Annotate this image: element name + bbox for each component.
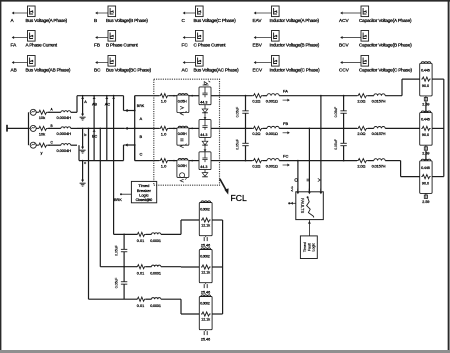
AC source EC <box>30 142 36 148</box>
load resistor B (2.0ohm) <box>357 126 368 130</box>
wire C FCL to line resistor <box>220 160 252 162</box>
voltmeter AB <box>93 95 95 97</box>
resistor source C (10k) <box>38 143 48 147</box>
line inductor C (0.001ohm) <box>267 159 279 161</box>
svg-text:ACV: ACV <box>339 18 350 23</box>
load branch 2 resistor <box>421 126 430 130</box>
svg-text:44.3: 44.3 <box>200 165 207 169</box>
bottom load 1 exit wire <box>212 219 223 221</box>
wire port to sources <box>7 127 30 129</box>
FCL diode below C <box>204 169 206 172</box>
svg-text:FA: FA <box>283 89 288 94</box>
bottom row 1 inductor (0.0001) <box>152 233 161 235</box>
voltmeter c to ground <box>82 160 84 162</box>
wire C after inductor <box>71 144 77 146</box>
svg-text:A Phase Current: A Phase Current <box>26 43 58 48</box>
svg-text:90.0: 90.0 <box>422 84 429 88</box>
bottom row 1 resistor (0.01) <box>136 232 145 236</box>
line resistor A (0.2ohm) <box>252 94 262 98</box>
FCL capacitor box B (44.3) <box>199 120 211 138</box>
voltmeter AC <box>106 95 108 97</box>
drop wire to bottom row1 <box>113 95 115 97</box>
svg-text:25.46: 25.46 <box>201 290 210 294</box>
timed fault logic box <box>300 236 317 259</box>
svg-text:CCV: CCV <box>339 68 350 73</box>
bottom load 2 box <box>199 250 212 283</box>
svg-text:0.2Ω: 0.2Ω <box>252 163 260 168</box>
FCL capacitor box A (44.3) <box>199 87 211 105</box>
FCL thyristor glyph top <box>203 82 209 85</box>
meter ECV: arrow wire <box>256 62 272 64</box>
bottom row 2 wire left <box>100 266 137 268</box>
meter BC: icon box <box>108 56 116 67</box>
svg-text:0.0004H: 0.0004H <box>57 148 72 153</box>
svg-text:0.446: 0.446 <box>421 118 430 122</box>
wire C to inductor <box>48 144 61 146</box>
load branch 3 bottom element <box>425 193 427 195</box>
wire B after breaker <box>135 127 154 129</box>
wire phase A riser <box>76 96 78 113</box>
fault box top stub B <box>308 189 310 192</box>
bottom load 2 capacitor <box>205 283 207 284</box>
wire source B <box>36 127 38 129</box>
svg-text:b: b <box>84 133 86 137</box>
load branch 1 resistor <box>421 77 430 81</box>
svg-text:1.0: 1.0 <box>161 164 167 169</box>
svg-text:C Phase Current: C Phase Current <box>194 43 227 48</box>
BRK signal stub <box>120 193 122 195</box>
meter CCV: arrow wire <box>343 62 362 64</box>
FCL wire B entry <box>154 127 160 129</box>
svg-text:FB: FB <box>94 43 100 48</box>
FCL inductor box B (0.05H) <box>177 128 189 145</box>
wire A to load section <box>279 95 357 97</box>
svg-text:AB: AB <box>11 68 17 73</box>
svg-text:0.01: 0.01 <box>137 271 144 275</box>
FCL wire B exit <box>211 127 220 129</box>
meter B: arrow wire <box>98 12 109 14</box>
svg-text:C: C <box>140 152 143 157</box>
svg-text:0.05uF: 0.05uF <box>114 245 118 256</box>
svg-text:0.0004H: 0.0004H <box>57 131 72 136</box>
fault tap wire phase B <box>309 127 311 129</box>
svg-text:2.0Ω: 2.0Ω <box>357 131 365 136</box>
FCL resistor B (1.0) <box>159 126 168 130</box>
svg-text:25.46: 25.46 <box>201 337 210 341</box>
timed breaker logic box <box>131 181 156 202</box>
svg-text:0.01: 0.01 <box>137 304 144 308</box>
svg-text:12.1k: 12.1k <box>201 224 210 228</box>
meter CCV: icon box <box>361 56 369 67</box>
wire B to load section <box>279 127 357 129</box>
wire A to load inductor <box>368 95 374 97</box>
bottom row 3 wire to box <box>161 298 181 300</box>
svg-text:Inductor Voltage(B Phase): Inductor Voltage(B Phase) <box>270 43 320 48</box>
svg-text:12.1k: 12.1k <box>201 271 210 275</box>
svg-text:BC: BC <box>92 135 98 139</box>
svg-text:0.05uF: 0.05uF <box>236 107 240 118</box>
FCL wire A to inductor box <box>169 95 177 97</box>
FCL diode link A-B <box>204 105 206 109</box>
svg-text:BCV: BCV <box>339 43 350 48</box>
svg-text:0.05uF: 0.05uF <box>114 278 118 289</box>
svg-text:Closed@t0: Closed@t0 <box>136 198 153 202</box>
capacitor C1a (A-B) <box>245 96 247 111</box>
border frame left <box>0 0 2 351</box>
svg-text:y: y <box>41 150 43 155</box>
bottom row 1 wire to box <box>161 233 181 235</box>
wire C step down after breaker <box>134 145 136 161</box>
FCL capacitor box C (44.3) <box>199 152 211 170</box>
svg-text:Capacitor Voltage(B Phase): Capacitor Voltage(B Phase) <box>359 43 412 48</box>
svg-text:Bus Voltage(A Phase): Bus Voltage(A Phase) <box>26 18 68 23</box>
svg-text:BC: BC <box>94 68 101 73</box>
wire B to inductor <box>48 127 61 129</box>
breaker C arrow <box>127 144 135 146</box>
meter FA: arrow wire <box>14 37 28 39</box>
svg-text:Inductor Voltage(A Phase): Inductor Voltage(A Phase) <box>270 18 320 23</box>
bottom load 3 box <box>199 297 212 330</box>
line inductor B (0.001ohm) <box>267 126 279 128</box>
meter B: icon box <box>108 6 116 17</box>
svg-text:Inductor Voltage(C Phase): Inductor Voltage(C Phase) <box>270 68 321 73</box>
svg-text:A: A <box>84 100 87 104</box>
FCL wire B to inductor box <box>169 127 177 129</box>
capacitor chain 2 vertical <box>343 95 345 97</box>
bottom load 3 capacitor <box>205 330 207 331</box>
svg-text:1.0: 1.0 <box>161 99 167 104</box>
bottom load return bus <box>222 220 224 314</box>
svg-text:BRK: BRK <box>114 198 122 202</box>
load inductor A (0.0157H) <box>374 94 385 96</box>
svg-text:0.0004H: 0.0004H <box>57 115 72 120</box>
fault box top stub A <box>320 189 322 192</box>
svg-text:Bus Voltage(BC Phase): Bus Voltage(BC Phase) <box>106 68 152 73</box>
bottom row 1 wire left <box>114 233 137 235</box>
svg-text:FCL: FCL <box>231 193 247 203</box>
bottom capacitor (row1-row2) <box>123 234 125 249</box>
meter EAV: arrow wire <box>256 12 272 14</box>
svg-text:0.05uF: 0.05uF <box>236 139 240 150</box>
svg-text:FAULTS: FAULTS <box>300 198 305 213</box>
three phase fault box FAULTS <box>296 192 324 220</box>
svg-text:0.05uF: 0.05uF <box>334 139 338 150</box>
load branch 3 resistor <box>421 175 430 179</box>
node A voltmeter tap <box>82 95 84 97</box>
FCL inductor box A (0.05H) <box>177 95 189 112</box>
meter A: icon box <box>28 6 36 17</box>
svg-text:BRK: BRK <box>137 104 145 108</box>
svg-text:c: c <box>84 161 86 165</box>
svg-text:FB: FB <box>283 121 288 126</box>
load inductor C (0.0157H) <box>374 159 385 161</box>
meter FC: icon box <box>196 31 204 42</box>
bottom load 1 box <box>199 203 212 236</box>
bottom load 1 resistor <box>201 218 211 222</box>
meter C: arrow wire <box>185 12 196 14</box>
drop wire to bottom row3 <box>88 127 90 129</box>
svg-text:12.1k: 12.1k <box>201 318 210 322</box>
svg-text:0.446: 0.446 <box>421 68 430 72</box>
svg-text:90.0: 90.0 <box>422 181 429 185</box>
FCL diode link B-C <box>204 137 206 141</box>
inductor source A (0.0004H) <box>61 111 71 113</box>
svg-text:EAV: EAV <box>253 18 263 23</box>
bottom row 3 resistor (0.01) <box>136 297 145 301</box>
svg-text:0.0001: 0.0001 <box>150 304 161 308</box>
resistor source A (10k) <box>38 110 48 114</box>
svg-text:0.2Ω: 0.2Ω <box>252 99 260 104</box>
meter AC: arrow wire <box>185 62 196 64</box>
FCL resistor C (1.0) <box>159 159 168 163</box>
meter BC: arrow wire <box>98 62 109 64</box>
inductor source B (0.0004H) <box>61 127 71 129</box>
meter FB: icon box <box>108 31 116 42</box>
wire C resistor to inductor <box>263 160 267 162</box>
wire A resistor to inductor <box>263 95 267 97</box>
meter ACV: icon box <box>361 6 369 17</box>
wire A after inductor <box>71 111 77 113</box>
bottom load 1 capacitor <box>205 236 207 237</box>
svg-text:Logic: Logic <box>139 192 149 197</box>
line inductor A (0.001ohm) <box>267 94 279 96</box>
meter ACV: arrow wire <box>343 12 362 14</box>
capacitor C2a (A-B) <box>343 96 345 111</box>
wire A FCL to line resistor <box>220 95 252 97</box>
svg-text:A-G: A-G <box>290 186 294 192</box>
load branch 2 bottom element <box>425 145 427 147</box>
load inductor B (0.0157H) <box>374 126 385 128</box>
voltmeter BC <box>93 128 95 130</box>
svg-text:Bus Voltage(AC Phase): Bus Voltage(AC Phase) <box>194 68 240 73</box>
svg-text:B Phase Current: B Phase Current <box>106 43 138 48</box>
load chain link 2-3 <box>425 151 427 161</box>
breaker B arrow <box>127 127 135 129</box>
svg-text:B: B <box>94 18 97 23</box>
svg-text:0.001Ω: 0.001Ω <box>266 131 278 136</box>
drop wire to bottom row2 <box>99 127 101 129</box>
FCL wire A box to capacitor box <box>189 95 199 97</box>
meter AB: arrow wire <box>14 62 28 64</box>
wire C to load section <box>279 160 357 162</box>
wire source bus vertical <box>28 112 30 145</box>
border frame right <box>448 0 450 351</box>
bottom load 2 resistor <box>201 265 211 269</box>
bottom load 3 resistor <box>201 312 211 316</box>
meter ECV: icon box <box>272 56 280 67</box>
load resistor A (2.0ohm) <box>357 94 368 98</box>
line resistor C (0.2ohm) <box>252 159 262 163</box>
wire phase B to load 2 <box>385 127 420 129</box>
load branch 2 box <box>420 113 432 146</box>
bottom row 2 inductor (0.0001) <box>152 265 161 267</box>
svg-text:Bus Voltage(B Phase): Bus Voltage(B Phase) <box>106 18 148 23</box>
bottom row 3 inductor (0.0001) <box>152 298 161 300</box>
fault box top stub C <box>297 189 299 192</box>
svg-text:FC: FC <box>283 153 288 158</box>
svg-text:B: B <box>140 134 143 139</box>
FCL wire A entry <box>154 95 160 97</box>
AC source EB <box>30 125 36 131</box>
bottom capacitor (row2-row3) <box>123 267 125 282</box>
load branch 2 exit wire <box>432 127 444 129</box>
svg-text:0.0157H: 0.0157H <box>372 131 386 136</box>
breaker tie vertical <box>134 96 136 161</box>
svg-text:44.3: 44.3 <box>200 100 207 104</box>
bottom load 2 exit wire <box>212 266 223 268</box>
meter EBV: arrow wire <box>256 37 272 39</box>
svg-text:Capacitor Voltage(C Phase): Capacitor Voltage(C Phase) <box>359 68 412 73</box>
wire C to load inductor <box>368 160 374 162</box>
wire A step up after breaker <box>134 96 136 111</box>
svg-text:B: B <box>51 124 53 128</box>
svg-text:2.0Ω: 2.0Ω <box>357 99 365 104</box>
resistor source B (10k) <box>38 126 48 130</box>
wire phase B bus <box>77 127 125 129</box>
svg-text:90.0: 90.0 <box>422 133 429 137</box>
load branch 3 box <box>420 161 432 194</box>
bottom row 2 wire mid <box>146 266 152 268</box>
wire C step up to breaker <box>123 145 125 161</box>
svg-text:0.0157H: 0.0157H <box>372 99 386 104</box>
FCL wire C box to capacitor box <box>189 160 199 162</box>
border frame top <box>0 0 450 2</box>
wire B to load inductor <box>368 127 374 129</box>
wire source A <box>36 111 38 113</box>
svg-text:0.05H: 0.05H <box>178 164 187 168</box>
meter FC: arrow wire <box>185 37 196 39</box>
capacitor chain 1 vertical <box>245 95 247 97</box>
svg-text:0.0001: 0.0001 <box>150 271 161 275</box>
fault logic wire <box>308 220 310 236</box>
svg-text:0.01: 0.01 <box>137 239 144 243</box>
svg-text:0.0001: 0.0001 <box>150 239 161 243</box>
capacitor C2b (B-C) <box>343 128 345 143</box>
load branch 3 exit wire <box>432 176 444 178</box>
fault stub marker B (bars) <box>307 179 310 181</box>
fault stub marker A (chevron) <box>318 178 320 181</box>
wire B FCL to line resistor <box>220 127 252 129</box>
inductor source C (0.0004H) <box>61 144 71 146</box>
svg-text:0.446: 0.446 <box>421 166 430 170</box>
meter FA: icon box <box>28 31 36 42</box>
FCL resistor A (1.0) <box>159 94 168 98</box>
svg-text:2.59: 2.59 <box>422 200 429 204</box>
svg-text:ECV: ECV <box>253 68 264 73</box>
svg-text:0.001Ω: 0.001Ω <box>266 99 278 104</box>
FCL wire C exit <box>211 160 220 162</box>
breaker A arrow <box>127 110 135 112</box>
wire phase C dropper <box>78 145 80 160</box>
svg-text:2.0Ω: 2.0Ω <box>357 163 365 168</box>
FCL wire B box to capacitor box <box>189 127 199 129</box>
svg-text:Logic: Logic <box>311 243 315 252</box>
svg-text:0.05H: 0.05H <box>178 132 187 136</box>
wire B after inductor <box>71 127 77 129</box>
wire B resistor to inductor <box>263 127 267 129</box>
svg-text:Capacitor Voltage(A Phase): Capacitor Voltage(A Phase) <box>359 18 412 23</box>
FCL inductor box C (0.05H) <box>177 160 189 177</box>
load branch 1 box <box>420 63 432 96</box>
svg-text:Bus Voltage(C Phase): Bus Voltage(C Phase) <box>194 18 237 23</box>
load branch 1 bottom element <box>425 96 427 98</box>
svg-text:25.46: 25.46 <box>201 243 210 247</box>
meter AB: icon box <box>28 56 36 67</box>
svg-text:0.0002: 0.0002 <box>200 254 210 258</box>
wire A step down to breaker <box>123 96 125 111</box>
bottom row 3 wire left <box>89 298 138 300</box>
voltmeter b to ground <box>82 128 84 130</box>
fault control input <box>288 202 290 204</box>
bottom row 2 wire to box <box>161 266 181 268</box>
svg-text:EBV: EBV <box>253 43 263 48</box>
wire source C <box>36 144 38 146</box>
FCL callout arrow <box>220 179 227 191</box>
meter BCV: icon box <box>361 31 369 42</box>
svg-text:0.0002: 0.0002 <box>200 207 210 211</box>
svg-text:FA: FA <box>11 43 18 48</box>
capacitor C1b (B-C) <box>245 128 247 143</box>
svg-text:FC: FC <box>182 43 189 48</box>
bottom capacitor chain vertical <box>123 234 125 236</box>
voltmeter A to ground <box>82 96 84 116</box>
wire phase A to load 1 <box>385 95 402 97</box>
line resistor B (0.2ohm) <box>252 126 262 130</box>
FCL dashed boundary box <box>154 79 220 185</box>
meter BCV: arrow wire <box>343 37 362 39</box>
meter C: icon box <box>196 6 204 17</box>
FCL wire C to inductor box <box>169 160 177 162</box>
wire phase C bottom bus <box>79 160 124 162</box>
meter EBV: icon box <box>272 31 280 42</box>
border frame bottom <box>0 350 450 353</box>
wire phase C to load 3 <box>385 160 400 162</box>
load return bus vertical <box>443 79 445 177</box>
svg-text:0.001Ω: 0.001Ω <box>266 163 278 168</box>
wire A to inductor <box>48 111 61 113</box>
meter EAV: icon box <box>272 6 280 17</box>
svg-text:AC: AC <box>182 68 189 73</box>
svg-text:1.0: 1.0 <box>161 131 167 136</box>
svg-text:10k: 10k <box>39 131 45 136</box>
svg-text:0.05H: 0.05H <box>178 99 187 103</box>
svg-text:0.0157H: 0.0157H <box>372 163 386 168</box>
svg-text:A: A <box>140 116 143 121</box>
svg-text:AB: AB <box>92 102 98 106</box>
svg-text:Bus Voltage(AB Phase): Bus Voltage(AB Phase) <box>26 68 71 73</box>
svg-text:AC: AC <box>105 102 111 106</box>
meter AC: icon box <box>196 56 204 67</box>
bottom row 3 wire mid <box>146 298 152 300</box>
bottom row 1 wire mid <box>146 233 152 235</box>
FCL wire A exit <box>211 95 220 97</box>
fault stub marker C (circle) <box>295 179 298 182</box>
svg-text:0.05uF: 0.05uF <box>334 107 338 118</box>
fault tap wire phase A <box>320 95 322 97</box>
svg-text:10k: 10k <box>39 115 45 120</box>
meter A: arrow wire <box>14 12 28 14</box>
load chain link 1-2 <box>425 102 427 113</box>
external port node <box>6 125 8 132</box>
load resistor C (2.0ohm) <box>357 159 368 163</box>
meter FB: arrow wire <box>98 37 109 39</box>
AC source EA <box>30 109 36 115</box>
bottom row 2 resistor (0.01) <box>136 265 145 269</box>
wire phase A top bus <box>77 95 124 97</box>
FCL wire C entry <box>154 160 160 162</box>
fault tap wire phase C <box>297 160 299 162</box>
svg-text:0.2Ω: 0.2Ω <box>252 131 260 136</box>
